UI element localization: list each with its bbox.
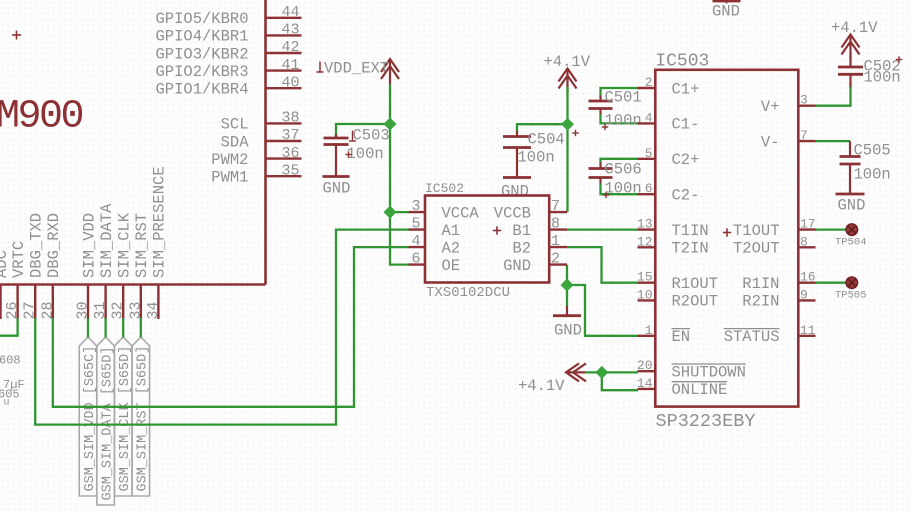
svg-text:TP505: TP505 bbox=[835, 289, 867, 301]
svg-text:SIM_PRESENCE: SIM_PRESENCE bbox=[151, 166, 169, 278]
svg-text:3: 3 bbox=[800, 93, 808, 108]
supply symbol +4.1V (top right, C502) bbox=[831, 19, 878, 67]
IC503 pin 8 (T2OUT) bbox=[733, 234, 816, 257]
IC503 pin 6 (C2-) bbox=[638, 181, 700, 204]
svg-text:14: 14 bbox=[637, 376, 653, 391]
svg-text:PWM1: PWM1 bbox=[211, 169, 248, 187]
svg-text:SCL: SCL bbox=[221, 116, 249, 134]
IC M900 pin 38 (SCL) bbox=[221, 110, 302, 134]
svg-text:TXS0102DCU: TXS0102DCU bbox=[426, 285, 510, 301]
svg-text:6: 6 bbox=[645, 181, 653, 196]
IC503 SP3223EBY outline bbox=[655, 70, 798, 407]
C503 name bbox=[349, 127, 390, 145]
svg-text:9: 9 bbox=[800, 287, 808, 302]
wire pin 28 DBG_RXD to IC502 A2 bbox=[53, 247, 409, 407]
junction at VDD_EXT / pin 3 bbox=[383, 206, 396, 219]
IC502 pin 2 (GND) bbox=[503, 251, 567, 275]
svg-text:GSM_SIM_VDD [S65C]: GSM_SIM_VDD [S65C] bbox=[83, 346, 98, 492]
wire V+ to C502 bbox=[815, 86, 851, 106]
IC503 pin 10 (R2OUT) bbox=[637, 287, 718, 310]
svg-text:T2OUT: T2OUT bbox=[733, 240, 780, 258]
capacitor C505 bbox=[840, 141, 861, 194]
ground symbol below C505 bbox=[836, 194, 866, 215]
svg-text:T2IN: T2IN bbox=[672, 240, 709, 258]
svg-text:+4.1V: +4.1V bbox=[544, 53, 591, 71]
svg-text:STATUS: STATUS bbox=[724, 328, 780, 346]
capacitor C506 bbox=[589, 163, 613, 199]
svg-text:36: 36 bbox=[281, 145, 299, 162]
svg-text:GPIO3/KBR2: GPIO3/KBR2 bbox=[155, 45, 248, 63]
svg-text:100n: 100n bbox=[518, 149, 555, 167]
svg-text:SIM_RST: SIM_RST bbox=[133, 213, 151, 278]
IC502 pin 7 (VCCB) bbox=[494, 198, 567, 222]
IC503 pin 13 (T1IN) bbox=[637, 217, 709, 240]
IC503 pin 4 (C1-) bbox=[638, 110, 700, 133]
svg-text:20: 20 bbox=[637, 358, 653, 373]
wire +4.1V rail down to IC502 pin 7 VCCB bbox=[566, 87, 568, 212]
wire R1IN to TP505 bbox=[815, 282, 846, 284]
IC503 pin 12 (T2IN) bbox=[637, 234, 709, 257]
svg-text:TP504: TP504 bbox=[835, 236, 867, 248]
wire pin 27 DBG_TXD to IC502 A1 bbox=[35, 230, 408, 425]
svg-text:100n: 100n bbox=[854, 166, 891, 184]
IC503 pin 5 (C2+) bbox=[638, 146, 700, 169]
svg-text:R2OUT: R2OUT bbox=[672, 293, 719, 311]
svg-text:VCCB: VCCB bbox=[494, 204, 531, 222]
IC M900 pin 32 (SIM_CLK) bbox=[110, 212, 134, 319]
capacitor C502 bbox=[838, 67, 863, 87]
svg-text:38: 38 bbox=[281, 110, 299, 127]
svg-text:GSM_SIM_CLK [S65D]: GSM_SIM_CLK [S65D] bbox=[118, 346, 133, 492]
svg-text:EN: EN bbox=[672, 328, 691, 346]
junction at SHUTDOWN net bbox=[595, 366, 608, 379]
svg-text:V-: V- bbox=[761, 133, 780, 151]
svg-text:C506: C506 bbox=[605, 160, 642, 178]
svg-text:5: 5 bbox=[411, 216, 420, 233]
svg-text:13: 13 bbox=[637, 217, 653, 232]
supply symbol +4.1V (over C504) bbox=[544, 53, 591, 94]
svg-text:IC502: IC502 bbox=[425, 181, 464, 196]
svg-text:ONLINE: ONLINE bbox=[672, 381, 728, 399]
svg-text:DBG_RXD: DBG_RXD bbox=[45, 213, 63, 278]
svg-text:R1IN: R1IN bbox=[742, 275, 779, 293]
svg-text:GND: GND bbox=[323, 180, 351, 198]
svg-text:SIM_VDD: SIM_VDD bbox=[80, 213, 98, 278]
junction at VDD_EXT / C503 bbox=[383, 117, 396, 130]
svg-text:100n: 100n bbox=[864, 69, 901, 87]
wire branch to C504 bbox=[517, 124, 568, 132]
wire +4.1V to SHUTDOWN and ONLINE bbox=[585, 371, 638, 373]
wire VDD_EXT to IC502 pin 3 bbox=[390, 211, 409, 213]
wire VDD_EXT rail down to IC502 VCCA/OE bbox=[390, 84, 409, 265]
svg-text:VDD_EXT: VDD_EXT bbox=[324, 60, 389, 78]
IC M900 pin 27 (DBG_TXD) bbox=[22, 213, 46, 320]
svg-text:SIM_CLK: SIM_CLK bbox=[116, 212, 134, 278]
IC502 origin cross bbox=[493, 226, 501, 234]
svg-text:GPIO1/KBR4: GPIO1/KBR4 bbox=[155, 81, 248, 99]
svg-text:SP3223EBY: SP3223EBY bbox=[656, 411, 756, 432]
svg-text:C2-: C2- bbox=[672, 187, 700, 205]
svg-text:43: 43 bbox=[281, 22, 299, 39]
IC503 pin 17 (T1OUT) bbox=[733, 217, 816, 240]
IC M900 pin 25 (ADC) bbox=[0, 250, 11, 319]
svg-text:B2: B2 bbox=[512, 239, 531, 257]
wire pin 30 SIM_VDD to flag bbox=[87, 318, 89, 338]
svg-text:44: 44 bbox=[281, 4, 299, 21]
svg-text:7: 7 bbox=[551, 198, 560, 215]
op-amp-style box IC502 TXS0102DCU outline bbox=[425, 196, 549, 283]
IC503 pin 16 (R1IN) bbox=[742, 270, 815, 293]
svg-text:R2IN: R2IN bbox=[742, 293, 779, 311]
IC503 pin 9 (R2IN) bbox=[742, 287, 815, 310]
svg-text:VCCA: VCCA bbox=[442, 204, 480, 222]
IC M900 pin 26 (VRTC) bbox=[4, 241, 28, 320]
wire T1OUT to TP504 bbox=[815, 228, 846, 230]
IC M900 pin 30 (SIM_VDD) bbox=[75, 213, 99, 320]
IC M900 pin 41 (GPIO2/KBR3) bbox=[155, 57, 301, 81]
test point TP505 bbox=[835, 277, 867, 301]
svg-text:PWM2: PWM2 bbox=[211, 151, 248, 169]
IC M900 pin 37 (SDA) bbox=[221, 127, 302, 151]
svg-text:7: 7 bbox=[800, 128, 808, 143]
svg-text:41: 41 bbox=[281, 57, 299, 74]
wire C506 loop pins 5-6 bbox=[601, 159, 639, 163]
IC M900 pin 31 (SIM_DATA) bbox=[92, 203, 116, 320]
supply symbol VDD_EXT bbox=[317, 59, 400, 84]
wire pin 32 SIM_CLK to flag bbox=[122, 318, 124, 338]
IC503 pin 15 (R1OUT) bbox=[637, 270, 718, 293]
svg-text:2: 2 bbox=[645, 75, 653, 90]
IC M900 pin 33 (SIM_RST) bbox=[127, 213, 151, 320]
svg-text:GPIO5/KBR0: GPIO5/KBR0 bbox=[155, 10, 248, 28]
svg-text:35: 35 bbox=[281, 162, 299, 179]
svg-text:100n: 100n bbox=[347, 145, 384, 163]
ground symbol below C504 bbox=[501, 178, 531, 201]
wire IC502 GND pin to ground and EN bbox=[566, 265, 568, 306]
IC M900 pin 43 (GPIO4/KBR1) bbox=[155, 22, 301, 46]
net label flag GSM_SIM_RST bbox=[132, 337, 151, 496]
svg-text:GSM_SIM_RST [S65D]: GSM_SIM_RST [S65D] bbox=[136, 346, 151, 492]
net label flag GSM_SIM_CLK bbox=[114, 337, 133, 496]
svg-text:C1-: C1- bbox=[672, 116, 700, 134]
IC502 pin 6 (OE) bbox=[409, 251, 461, 275]
svg-text:IC503: IC503 bbox=[655, 52, 709, 72]
IC503 pin 14 (ONLINE) bbox=[637, 376, 727, 399]
svg-text:C2+: C2+ bbox=[672, 151, 700, 169]
svg-text:31: 31 bbox=[92, 301, 109, 319]
capacitor C501 bbox=[589, 96, 613, 131]
svg-text:4: 4 bbox=[411, 233, 420, 250]
svg-text:15: 15 bbox=[637, 270, 653, 285]
IC503 pin 11 (STATUS) bbox=[724, 323, 816, 346]
svg-text:OE: OE bbox=[442, 257, 461, 275]
svg-text:30: 30 bbox=[75, 301, 92, 319]
svg-text:M900: M900 bbox=[0, 95, 83, 140]
svg-text:T1OUT: T1OUT bbox=[733, 222, 780, 240]
IC502 pin 1 (B2) bbox=[512, 233, 567, 257]
svg-text:GND: GND bbox=[501, 183, 529, 201]
svg-text:u: u bbox=[4, 398, 10, 409]
svg-text:+4.1V: +4.1V bbox=[831, 19, 878, 37]
svg-text:5: 5 bbox=[645, 146, 653, 161]
svg-text:1: 1 bbox=[645, 323, 653, 338]
svg-text:GPIO2/KBR3: GPIO2/KBR3 bbox=[155, 63, 248, 81]
wire pin 33 SIM_RST to flag bbox=[140, 318, 142, 338]
wire pin 26 VRTC to left bbox=[0, 318, 18, 336]
svg-text:608: 608 bbox=[0, 354, 21, 368]
svg-text:10: 10 bbox=[637, 287, 653, 302]
svg-text:26: 26 bbox=[4, 301, 21, 319]
svg-text:GND: GND bbox=[838, 197, 866, 215]
ground symbol below IC502 bbox=[553, 306, 582, 340]
svg-text:1: 1 bbox=[551, 233, 560, 250]
capacitor C503 bbox=[324, 134, 349, 177]
svg-text:+4.1V: +4.1V bbox=[518, 377, 565, 395]
svg-text:33: 33 bbox=[127, 301, 144, 319]
svg-text:C503: C503 bbox=[353, 127, 390, 145]
svg-text:11: 11 bbox=[800, 323, 816, 338]
test point TP504 bbox=[835, 224, 867, 249]
svg-text:A2: A2 bbox=[442, 239, 461, 257]
IC M900 pin 28 (DBG_RXD) bbox=[39, 213, 63, 320]
IC502 pin 5 (A1) bbox=[409, 216, 461, 240]
svg-text:8: 8 bbox=[551, 216, 560, 233]
junction at +4.1V / C504 bbox=[561, 118, 574, 131]
IC503 origin cross bbox=[723, 228, 731, 236]
svg-text:B1: B1 bbox=[512, 222, 531, 240]
svg-text:SIM_DATA: SIM_DATA bbox=[98, 203, 116, 278]
svg-text:4: 4 bbox=[645, 110, 653, 125]
junction at IC502 GND net bbox=[560, 278, 573, 291]
svg-text:C505: C505 bbox=[854, 142, 891, 160]
svg-text:16: 16 bbox=[800, 270, 816, 285]
wire IC502 B2 to IC503 R1OUT bbox=[566, 247, 638, 283]
svg-text:C504: C504 bbox=[528, 131, 565, 149]
ground symbol at top edge bbox=[712, 1, 741, 21]
svg-text:3: 3 bbox=[411, 198, 420, 215]
IC M900 pin 42 (GPIO3/KBR2) bbox=[155, 39, 301, 63]
svg-text:100n: 100n bbox=[605, 180, 642, 198]
svg-text:DBG_TXD: DBG_TXD bbox=[28, 213, 46, 278]
svg-text:VRTC: VRTC bbox=[10, 241, 28, 278]
svg-text:A1: A1 bbox=[442, 222, 461, 240]
svg-text:V+: V+ bbox=[761, 98, 780, 116]
IC M900 outline bottom edge bbox=[0, 283, 266, 286]
svg-text:37: 37 bbox=[281, 127, 299, 144]
svg-text:42: 42 bbox=[281, 39, 299, 56]
svg-text:34: 34 bbox=[145, 301, 162, 319]
IC502 pin 3 (VCCA) bbox=[409, 198, 480, 222]
svg-text:GPIO4/KBR1: GPIO4/KBR1 bbox=[155, 28, 248, 46]
IC M900 GSM module origin cross bbox=[12, 31, 21, 40]
IC503 pin 1 (EN) bbox=[638, 323, 691, 346]
svg-text:6: 6 bbox=[411, 251, 420, 268]
supply symbol +4.1V (left arrow at SHUTDOWN net) bbox=[518, 363, 586, 395]
svg-text:T1IN: T1IN bbox=[672, 222, 709, 240]
IC M900 pin 40 (GPIO1/KBR4) bbox=[155, 74, 301, 98]
IC M900 pin 44 (GPIO5/KBR0) bbox=[155, 4, 301, 28]
svg-text:28: 28 bbox=[39, 301, 56, 319]
IC503 pin 3 (V+) bbox=[761, 93, 816, 116]
svg-text:2: 2 bbox=[551, 251, 560, 268]
C503 value 100n bbox=[345, 145, 383, 163]
svg-text:GND: GND bbox=[712, 3, 740, 21]
svg-text:SHUTDOWN: SHUTDOWN bbox=[672, 364, 746, 382]
wire branch to C503 bbox=[336, 124, 390, 138]
svg-text:100n: 100n bbox=[605, 112, 642, 130]
IC M900 outline right edge bbox=[264, 0, 267, 285]
net label flag GSM_SIM_VDD bbox=[79, 337, 98, 496]
IC502 pin 8 (B1) bbox=[512, 216, 567, 240]
svg-text:GND: GND bbox=[503, 257, 531, 275]
svg-text:C1+: C1+ bbox=[672, 80, 700, 98]
C502 name bbox=[864, 56, 903, 75]
C504 name bbox=[528, 130, 579, 149]
svg-text:40: 40 bbox=[281, 74, 299, 91]
svg-text:8: 8 bbox=[800, 234, 808, 249]
ground symbol below C503 bbox=[323, 177, 351, 198]
wire V- to C505 bbox=[815, 140, 850, 142]
IC M900 pin 36 (PWM2) bbox=[211, 145, 301, 169]
IC503 pin 2 (C1+) bbox=[638, 75, 700, 98]
svg-text:R1OUT: R1OUT bbox=[672, 275, 719, 293]
IC M900 pin 35 (PWM1) bbox=[211, 162, 301, 186]
svg-text:27: 27 bbox=[22, 301, 39, 319]
svg-text:12: 12 bbox=[637, 234, 653, 249]
wire IC502 B1 to IC503 T1IN bbox=[566, 228, 638, 230]
net label flag GSM_SIM_DATA bbox=[97, 337, 116, 505]
wire pin 31 SIM_DATA to flag bbox=[104, 318, 106, 338]
IC502 pin 4 (A2) bbox=[409, 233, 461, 257]
svg-text:GND: GND bbox=[554, 322, 582, 340]
IC M900 pin 34 (SIM_PRESENCE) bbox=[145, 166, 169, 319]
svg-text:32: 32 bbox=[110, 301, 127, 319]
svg-text:17: 17 bbox=[800, 217, 816, 232]
wire C501 loop pins 2-4 bbox=[601, 88, 639, 96]
IC503 pin 20 (SHUTDOWN) bbox=[637, 358, 746, 381]
svg-text:SDA: SDA bbox=[221, 133, 250, 151]
IC503 pin 7 (V-) bbox=[761, 128, 816, 151]
svg-text:C501: C501 bbox=[605, 89, 642, 107]
capacitor C504 bbox=[503, 131, 531, 178]
